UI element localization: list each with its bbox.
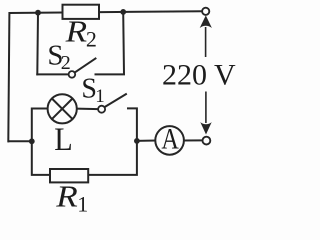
lamp L xyxy=(48,94,77,123)
wire ammeter to bottom terminal xyxy=(184,139,202,141)
junction node C xyxy=(29,138,35,144)
svg-text:1: 1 xyxy=(95,86,105,107)
svg-text:R: R xyxy=(55,179,78,213)
wire top rail xyxy=(8,11,201,141)
svg-text:1: 1 xyxy=(77,191,88,213)
voltage indicator line lower xyxy=(205,92,207,124)
junction node B xyxy=(120,9,126,15)
svg-text:220 V: 220 V xyxy=(162,58,236,91)
switch S1 xyxy=(98,94,127,113)
wire S2 left xyxy=(37,73,68,75)
ammeter A xyxy=(155,126,184,155)
resistor R1 xyxy=(50,169,88,182)
junction node D xyxy=(134,138,140,144)
wire S1 right corner down xyxy=(128,108,137,140)
svg-text:R: R xyxy=(64,14,87,49)
voltage indicator line upper xyxy=(205,27,207,57)
wire lamp-branch vertical from junction A xyxy=(36,13,39,75)
switch S2 xyxy=(69,58,97,78)
wire S2 right vertical to junction B xyxy=(96,12,125,75)
junction node A xyxy=(35,10,41,16)
wire lamp left xyxy=(32,109,48,142)
terminal bottom xyxy=(203,137,211,145)
svg-text:A: A xyxy=(161,122,179,155)
wire lamp to S1 xyxy=(77,108,98,111)
wire junction D to ammeter xyxy=(137,140,156,142)
wire R1 left leg xyxy=(32,141,50,175)
terminal top xyxy=(202,8,209,15)
wire bottom-left horizontal xyxy=(9,140,32,142)
svg-text:2: 2 xyxy=(61,52,71,74)
wire R1 right leg xyxy=(88,141,137,175)
resistor R2 xyxy=(63,5,100,19)
svg-text:2: 2 xyxy=(86,26,97,51)
svg-text:L: L xyxy=(54,122,72,158)
arrow down (to bottom terminal) xyxy=(200,122,211,134)
arrow up (to top terminal) xyxy=(200,15,212,28)
